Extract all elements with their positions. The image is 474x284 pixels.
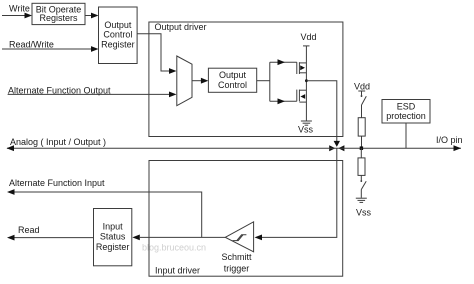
wire Read/Write [2, 40, 99, 52]
node I/O junction arrows [329, 141, 344, 151]
svg-text:Control: Control [218, 80, 247, 90]
transistor P-MOS [297, 62, 307, 74]
wire Bit Operate Registers to Output Control Register [85, 13, 99, 19]
svg-text:Registers: Registers [39, 13, 78, 23]
block Output Control [208, 68, 256, 92]
block ESD protection [382, 100, 430, 149]
wire Output Control Register to mux [137, 34, 176, 74]
ground Vss pull-down [356, 198, 372, 217]
svg-text:Output: Output [104, 20, 132, 30]
svg-text:Vdd: Vdd [300, 32, 316, 42]
svg-text:Output: Output [219, 70, 247, 80]
svg-text:Control: Control [103, 30, 132, 40]
svg-text:Status: Status [100, 232, 126, 242]
wire mux to Output Control [192, 78, 208, 84]
node pull rail junction [360, 146, 363, 150]
register Output Control Register [99, 7, 138, 64]
wire Schmitt output to Input Status Register [132, 235, 225, 241]
wire Alternate Function Input [7, 178, 202, 237]
node output stage tap [305, 79, 308, 82]
svg-text:Input driver: Input driver [155, 266, 200, 276]
wire Alternate Function Output [8, 85, 177, 97]
Vdd supply output stage [300, 32, 316, 121]
svg-text:Register: Register [96, 242, 130, 252]
svg-text:Read/Write: Read/Write [9, 40, 54, 50]
svg-text:Input: Input [103, 222, 124, 232]
svg-text:blog.bruceou.cn: blog.bruceou.cn [142, 243, 206, 253]
wire gate drive split [257, 59, 297, 104]
svg-text:ESD: ESD [397, 102, 416, 112]
svg-text:Analog ( Input / Output ): Analog ( Input / Output ) [10, 137, 106, 147]
transistor N-MOS [297, 90, 307, 103]
svg-text:I/O pin: I/O pin [436, 135, 463, 145]
mux [177, 56, 192, 106]
resistor pull-up [358, 118, 365, 149]
block Input driver [149, 161, 343, 277]
svg-text:Alternate Function Input: Alternate Function Input [9, 178, 105, 188]
block Output driver [149, 22, 343, 137]
svg-text:Register: Register [101, 40, 135, 50]
register Bit Operate Registers [32, 3, 85, 24]
wire Write [2, 3, 32, 18]
wire output stage to I/O node [306, 81, 336, 142]
wire I/O node to Schmitt trigger input [255, 148, 337, 240]
Vdd pull-up branch [354, 82, 370, 118]
svg-text:Vdd: Vdd [354, 82, 370, 92]
wire Analog ( Input / Output ) / I/O pin line [7, 135, 463, 151]
resistor pull-down [358, 148, 365, 180]
svg-text:Output driver: Output driver [155, 22, 207, 32]
switch pull-down [360, 180, 366, 198]
svg-text:Schmitt: Schmitt [221, 252, 252, 262]
svg-text:Vss: Vss [298, 125, 314, 135]
wire Read [7, 225, 94, 241]
svg-text:Read: Read [18, 225, 40, 235]
svg-text:Vss: Vss [356, 208, 372, 218]
svg-text:Write: Write [9, 3, 30, 13]
svg-text:trigger: trigger [224, 263, 250, 273]
schmitt trigger [221, 222, 253, 273]
ground Vss output stage [298, 121, 314, 135]
svg-text:protection: protection [386, 111, 426, 121]
svg-text:Alternate Function Output: Alternate Function Output [8, 85, 111, 95]
register Input Status Register [94, 209, 132, 266]
